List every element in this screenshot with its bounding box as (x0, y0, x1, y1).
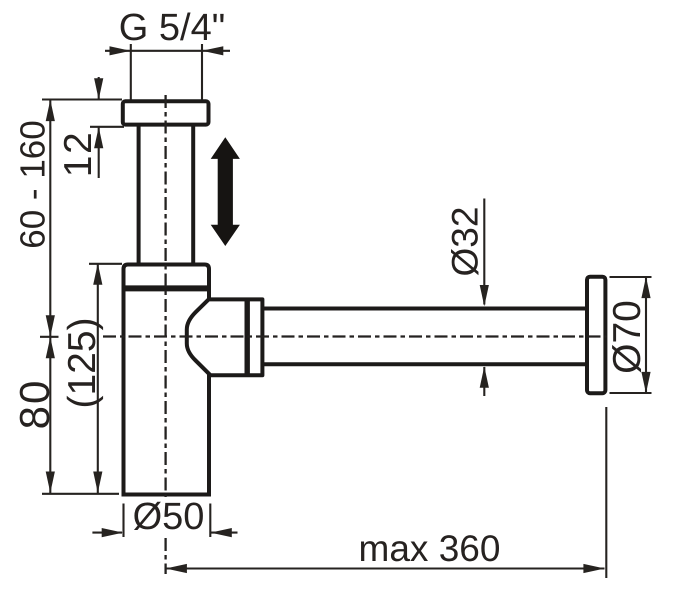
dimension O70: vertical line with up+down arrows (641, 277, 650, 393)
dimension 60-160: vertical line with up+down arrows (46, 100, 55, 337)
label 80 (rotated) (11, 379, 58, 430)
top flange nut (123, 101, 209, 124)
dimension G 5/4": extension line right (201, 44, 203, 100)
label O70 (rotated) (606, 300, 649, 374)
outlet elbow cone (white filled, overlaps body edge) (187, 299, 263, 375)
label (125) (rotated) (61, 317, 104, 408)
extension line at body bottom (42, 493, 119, 495)
label O50 (133, 496, 205, 538)
horizontal outlet pipe bottom wall (262, 362, 589, 366)
O50 extension line right (209, 504, 211, 538)
O70 extension line top (610, 276, 652, 278)
height adjustability double arrow (211, 137, 240, 246)
label max 360 (359, 528, 501, 569)
dimension 80: vertical line with up+down arrows (46, 337, 55, 493)
extension line at flange top (shared by 12 and 60-160) (42, 98, 122, 100)
dimension O50: left line with right arrow (92, 528, 123, 537)
vertical inlet pipe right wall (191, 124, 195, 263)
dimension (125): vertical line with up+down arrows (93, 263, 102, 493)
vertical inlet pipe left wall (137, 124, 141, 263)
svg-text:max 360: max 360 (359, 528, 501, 569)
svg-text:(125): (125) (61, 317, 104, 408)
label O32 (rotated) (445, 207, 486, 277)
wall flange (587, 277, 605, 394)
extension line at flange bottom (90, 126, 124, 128)
dimension O32: upper line with down arrow (480, 199, 489, 307)
vertical centerline (164, 95, 166, 574)
dimension 12: upper line with down arrow (94, 77, 103, 100)
O70 extension line bottom (610, 392, 652, 394)
body joint band (nut line) (122, 285, 211, 291)
extension line at body top (89, 263, 122, 265)
dimension G 5/4": dimension line with inward arrows (105, 46, 230, 55)
svg-text:60 - 160: 60 - 160 (14, 120, 53, 248)
outlet nut inner line (244, 298, 249, 376)
svg-text:Ø32: Ø32 (445, 207, 486, 277)
svg-text:80: 80 (11, 379, 58, 430)
dimension G 5/4": extension line left (130, 44, 132, 100)
O50 extension line left (122, 504, 124, 538)
label G 5/4" (119, 7, 225, 49)
svg-text:Ø50: Ø50 (133, 496, 205, 538)
label 12 (rotated) (57, 131, 100, 177)
tick at pipe axis level (40, 336, 59, 338)
dimension 12: lower line with up arrow (94, 127, 103, 178)
svg-text:12: 12 (57, 131, 100, 177)
label 60 - 160 (rotated) (14, 120, 53, 248)
horizontal outlet pipe top wall (262, 307, 589, 311)
bottle body (cup) (124, 265, 210, 495)
dimension O32: lower line with up arrow (480, 366, 489, 396)
dimension O50: right line with left arrow (211, 528, 238, 537)
svg-text:G 5/4": G 5/4" (119, 7, 225, 49)
max 360 extension line right (from flange) (605, 407, 607, 578)
svg-text:Ø70: Ø70 (606, 300, 649, 374)
dimension max 360: line with outward arrows (166, 564, 605, 573)
horizontal centerline (103, 335, 607, 337)
